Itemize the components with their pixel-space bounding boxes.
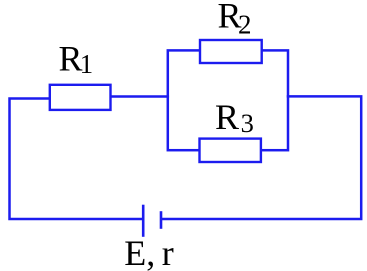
svg-text:r: r — [162, 233, 174, 271]
svg-text:3: 3 — [241, 108, 254, 138]
svg-text:1: 1 — [80, 49, 94, 79]
svg-text:2: 2 — [238, 10, 252, 40]
svg-text:R: R — [215, 97, 239, 137]
svg-text:E,: E, — [124, 233, 155, 271]
